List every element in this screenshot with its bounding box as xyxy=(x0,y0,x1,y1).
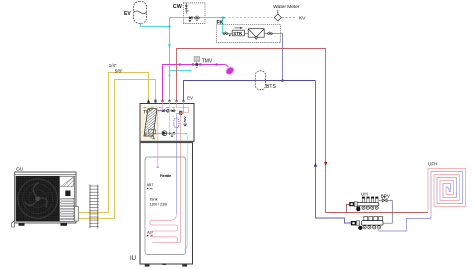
svg-text:BTS: BTS xyxy=(266,84,276,90)
svg-text:KV: KV xyxy=(299,15,306,21)
node CW-FK tee xyxy=(222,17,224,34)
internal safety group xyxy=(179,111,186,126)
svg-text:STR: STR xyxy=(233,31,243,36)
wire UFH return loop xyxy=(379,219,431,232)
label ABT xyxy=(147,183,154,190)
filter box CW xyxy=(183,3,205,24)
shower outlet xyxy=(217,65,236,77)
heat exchanger HX xyxy=(144,109,157,136)
svg-text:Tank: Tank xyxy=(150,198,158,202)
expansion vessel EV xyxy=(134,2,147,27)
svg-text:ABT: ABT xyxy=(147,183,154,187)
wire cold feed internal xyxy=(170,101,188,250)
node EV tee xyxy=(168,25,170,27)
internal bus line xyxy=(153,133,187,135)
wire cold-water main vertical xyxy=(168,18,183,102)
mixing valve TMV xyxy=(192,57,201,68)
wire flow internal xyxy=(177,101,189,243)
valve FK-L xyxy=(223,31,231,37)
buffer sensor BTS xyxy=(255,71,265,90)
svg-text:CW: CW xyxy=(173,4,183,10)
svg-text:Flextite: Flextite xyxy=(160,174,171,178)
UFH spiral return xyxy=(431,172,463,219)
internal expansion vessel xyxy=(174,118,179,128)
filter F xyxy=(248,29,264,40)
svg-text:5/8": 5/8" xyxy=(115,68,123,73)
filling kit FK box xyxy=(216,25,282,43)
svg-text:IU: IU xyxy=(130,256,136,262)
valve FK-R xyxy=(268,31,273,34)
tank coil xyxy=(150,214,181,243)
wire TMV cold feed xyxy=(170,69,193,72)
svg-text:UH: UH xyxy=(361,191,368,196)
strainer STR xyxy=(232,27,244,36)
unit top connections xyxy=(147,99,185,103)
pipe refrigerant 5/8 xyxy=(77,80,156,219)
outdoor unit OU xyxy=(12,172,79,227)
wire FK outlet xyxy=(282,34,284,81)
svg-text:UFH: UFH xyxy=(428,161,437,166)
indoor unit hydrobox xyxy=(140,104,194,142)
label AST xyxy=(147,231,154,237)
bypass valve BPV xyxy=(379,197,393,223)
unit internals top row xyxy=(144,107,177,114)
svg-text:FK: FK xyxy=(217,20,224,26)
pipe refrigerant 1/4 xyxy=(77,73,149,213)
wire heating return xyxy=(184,81,351,224)
wire EV branch xyxy=(141,26,170,28)
drain pan xyxy=(149,129,156,138)
svg-text:OU: OU xyxy=(16,166,24,172)
svg-text:Water Meter: Water Meter xyxy=(273,4,300,10)
svg-text:EV: EV xyxy=(124,11,131,17)
valve CW-1 xyxy=(189,16,193,22)
svg-text:BPV: BPV xyxy=(381,194,391,199)
tank shell xyxy=(140,141,194,266)
water meter M xyxy=(274,10,296,21)
valve 3way xyxy=(169,132,174,137)
svg-text:180l / 230l: 180l / 230l xyxy=(150,202,168,206)
return manifold xyxy=(351,217,383,230)
wall section xyxy=(89,185,98,229)
wire DHW hot xyxy=(163,63,218,101)
label Tank size xyxy=(150,198,168,207)
pump P xyxy=(162,131,167,136)
UFH spiral flow xyxy=(428,169,466,212)
svg-text:TMV: TMV xyxy=(202,58,213,64)
wire heating flow xyxy=(177,49,429,213)
wire DHW dip tube xyxy=(156,101,162,167)
underfloor manifold UH xyxy=(349,197,379,212)
svg-text:EV: EV xyxy=(187,95,193,100)
node FK junction xyxy=(281,79,284,82)
wire return internal xyxy=(176,101,183,214)
svg-text:1/4": 1/4" xyxy=(109,63,117,68)
valve CW-2 xyxy=(195,16,200,22)
wire CW to meter xyxy=(205,17,275,20)
